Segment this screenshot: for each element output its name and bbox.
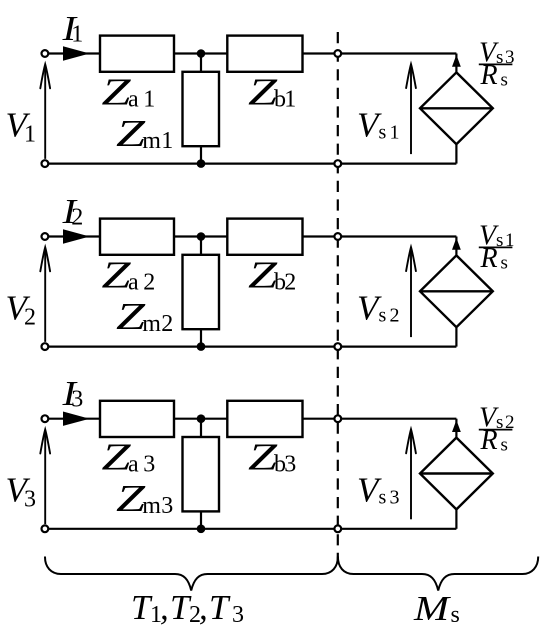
wire source bottom lead [455, 327, 457, 346]
svg-text:s: s [379, 122, 387, 144]
wire source bottom lead [455, 144, 457, 163]
node top junction row 1 [197, 49, 206, 58]
source current arrow U2 [452, 238, 461, 250]
label Zb2 [248, 255, 296, 297]
port bottom on boundary row 3 [334, 525, 341, 532]
resistor Zb1 [227, 36, 302, 72]
value label Vs3/Rs [479, 38, 515, 92]
svg-text:3: 3 [284, 452, 296, 478]
svg-text:s: s [379, 305, 387, 327]
resistor Zb3 [227, 401, 302, 437]
wire source top lead [455, 54, 457, 73]
label T1,T2,T3 [131, 588, 244, 628]
svg-text:s: s [501, 70, 508, 91]
terminal top-left row 3 [42, 415, 49, 422]
dependent source U3 (diamond) [420, 438, 493, 510]
svg-text:T: T [209, 588, 231, 627]
svg-text:3: 3 [143, 452, 155, 478]
wire bottom rail [45, 163, 457, 165]
wire Za to Zb through node [174, 52, 227, 54]
svg-text:m: m [142, 493, 161, 519]
resistor Za2 [100, 219, 174, 255]
port bottom on boundary row 2 [334, 343, 341, 350]
resistor Zm3 [183, 437, 220, 511]
wire Zm to bottom node [200, 329, 202, 346]
label V3 [6, 471, 37, 513]
node bottom junction row 2 [197, 342, 206, 351]
wire Zb to top-right corner [303, 52, 457, 54]
source current arrow U3 [452, 420, 461, 432]
wire Zm to bottom node [200, 511, 202, 528]
node top junction row 3 [197, 414, 206, 423]
label Za1 [102, 72, 156, 114]
svg-text:1: 1 [390, 122, 400, 144]
label Vs3 [357, 471, 400, 510]
label Ms [413, 589, 460, 628]
svg-text:3: 3 [24, 487, 36, 513]
wire bottom rail [45, 346, 457, 348]
dependent source U2 (diamond) [420, 255, 493, 327]
wire source bottom lead [455, 509, 457, 528]
resistor Za1 [100, 36, 174, 72]
node bottom junction row 3 [197, 525, 206, 534]
label I2 [61, 192, 83, 231]
svg-text:1: 1 [143, 87, 155, 113]
voltage arrow V3 [44, 432, 46, 524]
wire Zb to top-right corner [303, 418, 457, 420]
boundary dashed line [337, 32, 339, 562]
svg-text:s: s [451, 602, 460, 628]
brace T1T2T3 [45, 557, 338, 591]
wire top node to Zm [200, 237, 202, 255]
value label Vs1/Rs [479, 221, 515, 275]
svg-text:2: 2 [143, 270, 155, 296]
source bar U2 [420, 290, 493, 292]
port top on boundary row 1 [334, 50, 341, 57]
wire top-left segment [45, 235, 100, 237]
label Zb3 [248, 437, 296, 479]
svg-text:a: a [128, 452, 139, 478]
wire top node to Zm [200, 419, 202, 437]
svg-text:s: s [501, 253, 508, 274]
svg-text:s: s [379, 487, 387, 509]
value label Vs2/Rs [479, 403, 515, 457]
svg-text:3: 3 [71, 387, 83, 413]
source bar U3 [420, 472, 493, 474]
label I1 [61, 9, 83, 48]
wire source top lead [455, 237, 457, 256]
resistor Zb2 [227, 219, 302, 255]
svg-text:R: R [480, 60, 498, 91]
port bottom on boundary row 1 [334, 160, 341, 167]
svg-text:1: 1 [161, 128, 173, 154]
svg-text:M: M [413, 589, 451, 628]
node bottom junction row 1 [197, 159, 206, 168]
port top on boundary row 2 [334, 233, 341, 240]
wire bottom rail [45, 528, 457, 530]
dependent source U1 (diamond) [420, 72, 493, 144]
svg-text:2: 2 [284, 270, 296, 296]
terminal bottom-left row 1 [42, 160, 49, 167]
svg-text:a: a [128, 87, 139, 113]
current arrow I2 [63, 229, 90, 243]
voltage arrow Vs1 [410, 66, 412, 154]
terminal top-left row 1 [42, 50, 49, 57]
svg-text:m: m [142, 311, 161, 337]
svg-text:R: R [480, 243, 498, 274]
label I3 [61, 374, 83, 413]
svg-text:1: 1 [24, 122, 36, 148]
voltage arrow V1 [44, 67, 46, 159]
label Vs1 [357, 106, 400, 145]
label Zm2 [116, 296, 173, 338]
svg-text:,: , [199, 588, 208, 627]
terminal bottom-left row 3 [42, 525, 49, 532]
terminal bottom-left row 2 [42, 343, 49, 350]
svg-text:3: 3 [390, 487, 400, 509]
label Za2 [102, 255, 156, 297]
label V2 [6, 289, 37, 331]
current arrow I1 [63, 46, 90, 60]
wire top-left segment [45, 418, 100, 420]
svg-text:3: 3 [161, 493, 173, 519]
svg-text:2: 2 [71, 205, 83, 231]
label Vs2 [357, 289, 400, 328]
wire source top lead [455, 419, 457, 438]
wire Zm to bottom node [200, 146, 202, 163]
label Za3 [102, 437, 156, 479]
svg-text:s: s [501, 435, 508, 456]
wire top-left segment [45, 52, 100, 54]
svg-text:2: 2 [161, 311, 173, 337]
svg-text:m: m [142, 128, 161, 154]
svg-text:2: 2 [390, 305, 400, 327]
svg-text:R: R [480, 425, 498, 456]
terminal top-left row 2 [42, 233, 49, 240]
node top junction row 2 [197, 232, 206, 241]
label Zm1 [116, 113, 173, 155]
wire Za to Zb through node [174, 418, 227, 420]
resistor Za3 [100, 401, 174, 437]
brace Ms [338, 557, 538, 591]
wire Zb to top-right corner [303, 235, 457, 237]
svg-text:1: 1 [71, 22, 83, 48]
resistor Zm1 [183, 72, 220, 146]
current arrow I3 [63, 412, 90, 426]
voltage arrow Vs3 [410, 432, 412, 520]
voltage arrow Vs2 [410, 249, 412, 337]
voltage arrow V2 [44, 250, 46, 342]
label V1 [6, 106, 37, 148]
wire top node to Zm [200, 54, 202, 72]
label Zm3 [116, 478, 173, 520]
svg-text:a: a [128, 270, 139, 296]
svg-text:3: 3 [232, 602, 244, 628]
source current arrow U1 [452, 55, 461, 67]
port top on boundary row 3 [334, 415, 341, 422]
resistor Zm2 [183, 255, 220, 329]
svg-text:1: 1 [284, 87, 296, 113]
source bar U1 [420, 107, 493, 109]
svg-text:2: 2 [24, 305, 36, 331]
svg-text:,: , [160, 588, 169, 627]
wire Za to Zb through node [174, 235, 227, 237]
label Zb1 [248, 72, 296, 114]
